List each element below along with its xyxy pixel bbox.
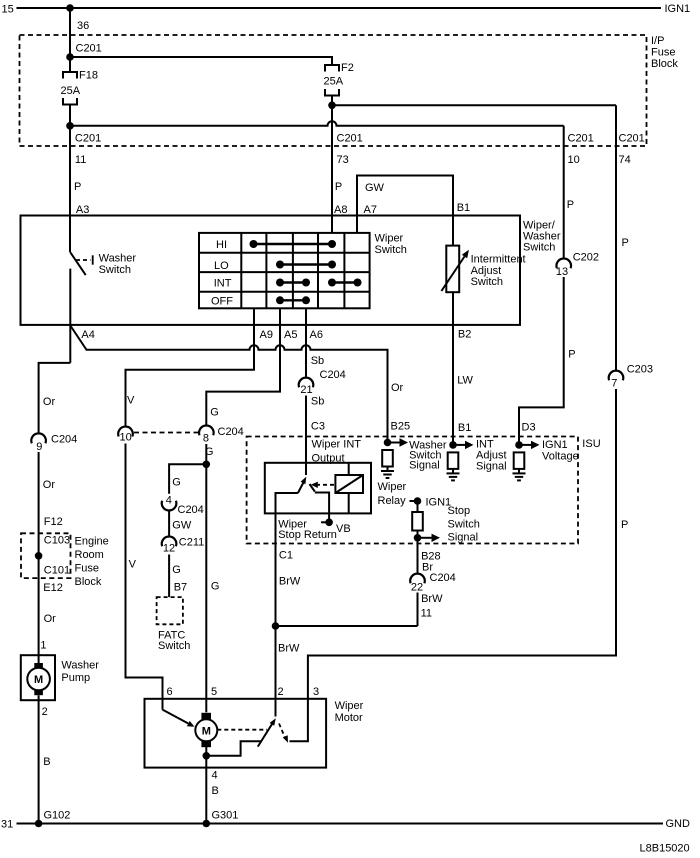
motor park linkage dashed (217, 724, 288, 743)
svg-text:Voltage: Voltage (542, 450, 579, 462)
junction below fuse F2 (328, 102, 336, 110)
svg-text:B25: B25 (391, 421, 411, 433)
svg-text:C204: C204 (320, 369, 346, 381)
svg-text:C204: C204 (218, 426, 244, 438)
svg-text:2: 2 (278, 686, 284, 698)
svg-text:Stop: Stop (448, 505, 471, 517)
svg-text:A7: A7 (364, 204, 377, 216)
wire 36 feed from rail to fuse F18 (69, 8, 71, 72)
HI contact bar (250, 240, 258, 248)
svg-text:Or: Or (43, 396, 56, 408)
svg-text:ISU: ISU (582, 438, 600, 450)
svg-text:D3: D3 (522, 422, 536, 434)
svg-text:Wiper INT: Wiper INT (312, 439, 362, 451)
svg-text:C1: C1 (279, 550, 293, 562)
node VB (321, 519, 351, 535)
relay NO contact (310, 484, 315, 492)
wire A6 Sb down (305, 308, 307, 377)
label Wiper/Washer Switch (523, 220, 561, 254)
connector C204 pin 8 (199, 425, 244, 444)
svg-text:B1: B1 (457, 202, 470, 214)
wire park return (206, 741, 262, 756)
svg-text:Fuse: Fuse (651, 47, 675, 59)
svg-text:B1: B1 (458, 422, 471, 434)
washer pump M1 (21, 655, 99, 700)
svg-text:L8B15020: L8B15020 (640, 843, 690, 855)
svg-text:C201: C201 (337, 133, 363, 145)
svg-text:C103: C103 (44, 535, 70, 547)
svg-text:Switch: Switch (375, 244, 407, 256)
svg-text:BrW: BrW (279, 576, 301, 588)
junction node below C201-36 (66, 53, 74, 61)
svg-text:P: P (622, 237, 629, 249)
I/P fuse block dashed box (20, 35, 647, 146)
washer switch SW1 (70, 252, 136, 276)
svg-text:31: 31 (1, 819, 13, 831)
svg-text:Sb: Sb (311, 355, 324, 367)
svg-text:HI: HI (216, 239, 227, 251)
intermittent adjust switch (potentiometer) (441, 246, 525, 293)
svg-text:C204: C204 (51, 433, 77, 445)
svg-text:E12: E12 (43, 582, 63, 594)
svg-text:GW: GW (172, 520, 192, 532)
fuse F2 25A (324, 62, 354, 96)
wire BrW horizontal (276, 625, 418, 627)
connector C201 pin 74 (619, 133, 645, 167)
svg-text:C203: C203 (627, 364, 653, 376)
wire Or: C204-9 to washer pump (38, 452, 40, 663)
svg-text:Room: Room (75, 549, 104, 561)
LO contact bar (276, 261, 284, 269)
svg-text:OFF: OFF (211, 296, 233, 308)
connector C204 pin 22 (410, 572, 456, 594)
resistor + ground: INT adjust signal input (B1) (447, 441, 474, 481)
label Stop Switch Signal (448, 505, 480, 544)
wire top IGN1 rail (17, 7, 662, 9)
svg-text:G: G (172, 564, 181, 576)
svg-text:Wiper: Wiper (378, 481, 407, 493)
svg-text:I/P: I/P (651, 35, 664, 47)
svg-text:LW: LW (457, 375, 473, 387)
fuse F18 25A (61, 70, 98, 105)
svg-text:36: 36 (77, 20, 89, 32)
svg-text:Washer: Washer (61, 660, 99, 672)
wire A9 to V (126, 308, 255, 426)
wire P: C202-13 to ISU D3 (519, 277, 564, 445)
pin 6 speed arrow into motor (163, 710, 195, 727)
svg-text:C204: C204 (178, 504, 204, 516)
label Wiper Motor (335, 700, 364, 724)
svg-text:F12: F12 (44, 516, 63, 528)
wire fuse F2 to junction (331, 96, 333, 106)
svg-text:5: 5 (211, 686, 217, 698)
resistor + ground: washer switch signal input (B25) (381, 438, 408, 478)
svg-text:Signal: Signal (448, 532, 479, 544)
wiper switch contact table (199, 233, 370, 308)
connector C201 pin 10 (568, 133, 594, 167)
svg-text:Switch: Switch (99, 264, 131, 276)
junction top rail x=70 (66, 4, 74, 12)
wiper motor M2 (195, 713, 217, 747)
wiper relay box (265, 463, 371, 514)
junction BrW (272, 622, 280, 630)
label Wiper INT Output (312, 439, 362, 465)
connector C204 pin 9 (31, 433, 77, 453)
svg-text:3: 3 (313, 686, 319, 698)
svg-text:B: B (43, 756, 50, 768)
wire P: C203-7 to motor pin 3 (290, 389, 617, 741)
label INT Adjust Signal (476, 439, 507, 473)
wire ground rail (17, 823, 664, 825)
node IGN1 (stop switch pull-up) (410, 497, 452, 509)
svg-text:G102: G102 (44, 810, 71, 822)
svg-text:Fuse: Fuse (75, 562, 99, 574)
svg-text:F18: F18 (79, 70, 98, 82)
svg-text:12: 12 (163, 543, 175, 555)
svg-text:A8: A8 (334, 204, 347, 216)
label IGN1 Voltage (542, 439, 579, 462)
svg-text:C201: C201 (76, 43, 102, 55)
svg-text:C202: C202 (573, 252, 599, 264)
svg-text:22: 22 (411, 582, 423, 594)
svg-text:11: 11 (421, 608, 432, 620)
svg-text:Washer: Washer (99, 253, 137, 265)
svg-text:C101: C101 (44, 565, 70, 577)
svg-text:Or: Or (391, 382, 404, 394)
wire relay contact to VB (315, 493, 329, 523)
wire washer switch to A4 (69, 269, 71, 363)
svg-text:Stop Return: Stop Return (278, 529, 337, 541)
svg-text:4: 4 (166, 494, 172, 506)
svg-text:Intermittent: Intermittent (471, 254, 526, 266)
connector C204 pin 21 (299, 369, 346, 396)
wire Sb: C204-21 to ISU C3 (305, 396, 307, 476)
svg-text:LO: LO (214, 260, 229, 272)
svg-text:10: 10 (120, 432, 132, 444)
ISU dashed box (247, 437, 578, 544)
wire washer A4 branch down to C204-9 (39, 363, 71, 434)
wire stop switch signal down (417, 538, 419, 574)
svg-text:A9: A9 (260, 329, 273, 341)
svg-text:Or: Or (44, 613, 57, 625)
wire P down to C203-7 (615, 105, 617, 370)
svg-text:Adjust: Adjust (471, 265, 502, 277)
wiper/washer switch box (21, 216, 521, 325)
svg-text:1: 1 (40, 640, 46, 652)
connector C202 pin 13 (556, 252, 599, 278)
resistor stop switch pull-up (412, 501, 423, 538)
wire A5 to G (206, 308, 280, 425)
svg-text:B2: B2 (458, 329, 471, 341)
junction G / FATC branch (203, 461, 211, 469)
svg-text:V: V (127, 395, 135, 407)
engine room fuse block dashed box (21, 533, 71, 578)
svg-text:9: 9 (36, 441, 42, 453)
wire A4/Or horizontal with hops over A9 A5 A6 (70, 326, 387, 443)
label Wiper Relay (378, 481, 407, 507)
svg-text:Switch: Switch (158, 640, 190, 652)
svg-text:INT: INT (214, 278, 232, 290)
svg-text:Switch: Switch (448, 519, 480, 531)
svg-text:G: G (210, 407, 219, 419)
wire P (A3 feed) (69, 105, 71, 253)
svg-text:Signal: Signal (476, 461, 507, 473)
svg-text:C3: C3 (311, 421, 325, 433)
svg-text:2: 2 (42, 706, 48, 718)
svg-text:F2: F2 (341, 62, 354, 74)
svg-text:P: P (568, 349, 575, 361)
svg-text:Block: Block (651, 58, 678, 70)
svg-text:Wiper: Wiper (335, 700, 364, 712)
svg-text:A4: A4 (81, 329, 94, 341)
ground G301 (203, 810, 239, 828)
label Washer Switch Signal (409, 439, 447, 471)
relay coil (335, 463, 363, 514)
wire F18 junction to right branch (C201-10) with hop over F2 wire (70, 121, 564, 126)
FATC switch dashed box (157, 597, 183, 624)
label Engine Room Fuse Block (75, 535, 109, 588)
connector C204 pin 4 (162, 494, 204, 516)
svg-text:IGN1: IGN1 (665, 3, 691, 15)
svg-text:13: 13 (556, 266, 568, 278)
svg-text:15: 15 (2, 4, 14, 16)
svg-text:25A: 25A (61, 85, 81, 97)
wire wiper stop return: relay to C1 (276, 493, 298, 626)
label I/P Fuse Block (651, 35, 678, 70)
relay coil dashed linkage (311, 482, 335, 488)
svg-text:10: 10 (568, 154, 580, 166)
wire B2/LW: pot to ISU B1 (452, 292, 454, 445)
ground G102 (35, 810, 71, 828)
connector C203 pin 7 (609, 364, 653, 390)
svg-text:P: P (567, 199, 574, 211)
svg-text:P: P (74, 181, 81, 193)
wire P down to C202-13 (563, 126, 565, 259)
wire BrW down to motor pin 2 (275, 626, 277, 717)
junction below fuse F18 (66, 122, 74, 130)
svg-text:P: P (621, 519, 628, 531)
wire branch to fuse F2 (70, 57, 332, 65)
svg-text:IGN1: IGN1 (542, 439, 568, 451)
INT contact bars (276, 279, 284, 287)
svg-text:G: G (205, 446, 214, 458)
svg-text:GND: GND (666, 818, 691, 830)
connector C201 pin 73 (337, 133, 363, 167)
svg-text:G: G (172, 477, 181, 489)
OFF contact bar (276, 296, 284, 304)
svg-text:Pump: Pump (61, 672, 90, 684)
junction C103/C101 (35, 552, 43, 560)
svg-text:11: 11 (75, 154, 86, 166)
svg-text:Engine: Engine (75, 535, 109, 547)
connector C211 pin 12 (162, 536, 205, 554)
label Wiper Switch (table) (375, 233, 407, 256)
wire motor to ground rail (205, 747, 207, 824)
motor park switch blade (258, 718, 276, 746)
dashed link C204 10-8 (134, 432, 199, 434)
wire F2 junction to right branch (C201-74) (332, 104, 616, 106)
svg-text:M: M (34, 674, 43, 686)
svg-text:VB: VB (336, 523, 351, 535)
svg-text:A3: A3 (76, 204, 89, 216)
connector C204 pin 10 (118, 427, 133, 444)
wire BrW: C204-22 to motor pin 2 (417, 593, 419, 627)
svg-text:B: B (212, 785, 219, 797)
wire G: C204-8 to wiper motor pin 5 (205, 444, 207, 712)
junction + arrow stop switch signal (414, 534, 440, 542)
svg-text:Relay: Relay (378, 495, 407, 507)
wire B: pump to ground rail (38, 695, 40, 823)
label FATC Switch (158, 630, 190, 653)
wire V: C204-10 to wiper motor pin 6 (126, 444, 163, 710)
svg-text:GW: GW (365, 182, 385, 194)
svg-text:8: 8 (203, 433, 209, 445)
connector C201 pin 11 (75, 133, 101, 167)
svg-text:V: V (129, 559, 137, 571)
wiper motor box (145, 699, 327, 768)
svg-text:C211: C211 (179, 537, 204, 549)
label Wiper Stop Return (278, 519, 337, 542)
svg-text:Motor: Motor (335, 712, 363, 724)
svg-text:C201: C201 (75, 133, 101, 145)
svg-text:4: 4 (212, 770, 218, 782)
svg-text:6: 6 (167, 686, 173, 698)
wire G branch to FATC switch (169, 464, 206, 493)
svg-text:BrW: BrW (278, 643, 300, 655)
wire G: C211-12 to FATC (168, 555, 170, 598)
svg-text:21: 21 (300, 384, 312, 396)
svg-text:74: 74 (619, 154, 631, 166)
resistor + ground: IGN1 voltage input (D3) (513, 441, 540, 481)
svg-text:P: P (335, 181, 342, 193)
wire GW: C204-4 to C211-12 (168, 511, 170, 537)
svg-text:G: G (211, 581, 220, 593)
svg-text:BrW: BrW (421, 593, 443, 605)
svg-text:7: 7 (611, 378, 617, 390)
svg-text:A5: A5 (284, 329, 297, 341)
svg-text:C204: C204 (430, 572, 456, 584)
svg-text:Switch: Switch (471, 276, 503, 288)
svg-text:25A: 25A (324, 76, 344, 88)
svg-text:A6: A6 (310, 329, 323, 341)
relay switch blade (298, 477, 306, 493)
svg-text:Wiper: Wiper (375, 233, 404, 245)
svg-text:C201: C201 (619, 133, 645, 145)
svg-text:Sb: Sb (311, 396, 324, 408)
svg-text:G301: G301 (212, 810, 239, 822)
svg-text:M: M (202, 725, 211, 737)
svg-text:Block: Block (75, 576, 102, 588)
junction motor ground (203, 752, 211, 760)
wire GW: A7 to B1 bridge (357, 176, 453, 246)
wire P (A8 feed) (331, 105, 333, 233)
svg-text:B7: B7 (174, 582, 187, 594)
svg-text:Or: Or (43, 479, 56, 491)
svg-text:C201: C201 (568, 133, 594, 145)
svg-text:Signal: Signal (409, 460, 440, 472)
svg-text:73: 73 (337, 154, 349, 166)
svg-text:Switch: Switch (523, 242, 555, 254)
